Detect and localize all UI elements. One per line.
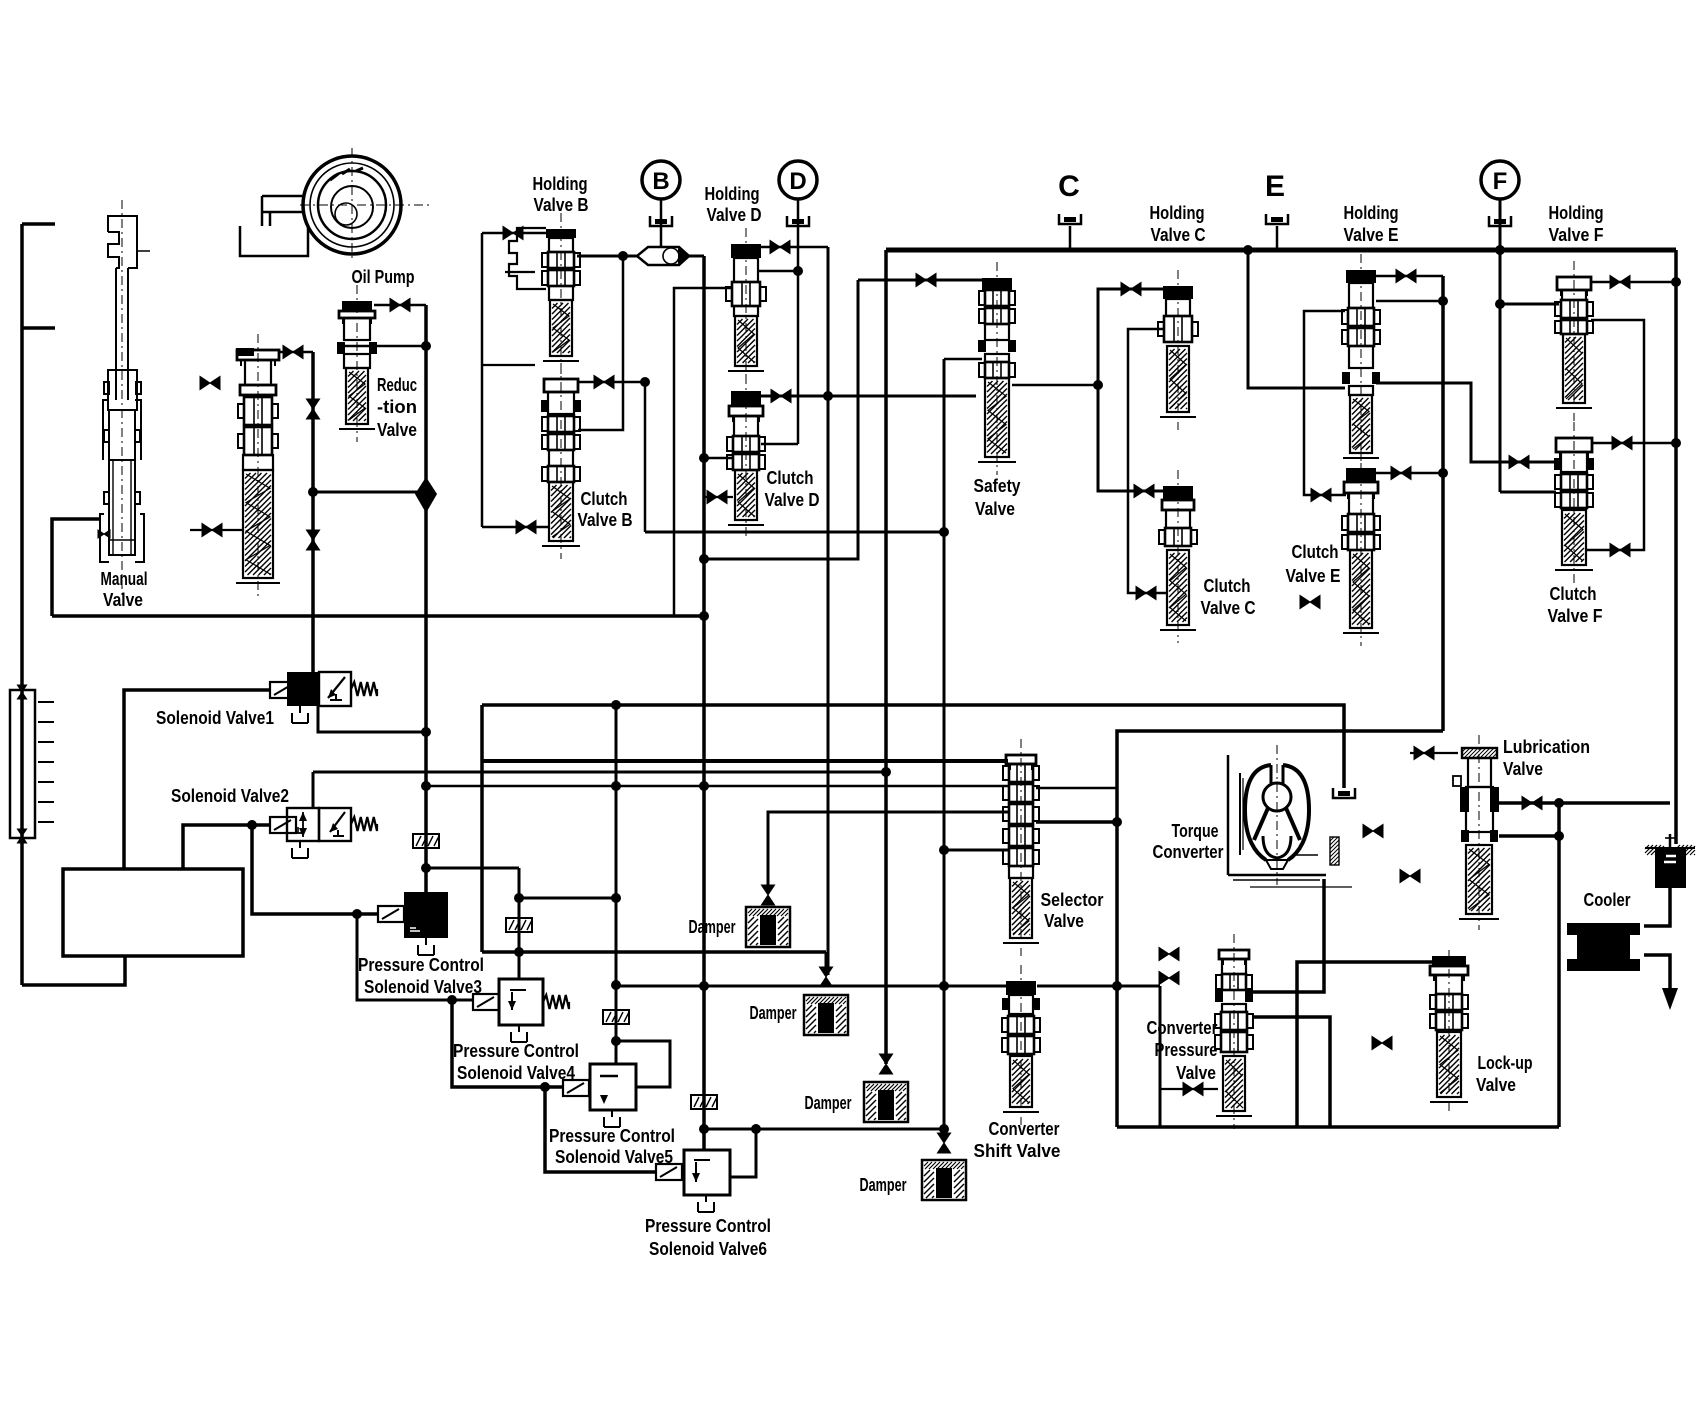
junction x886 y772: [881, 767, 891, 777]
svg-text:Solenoid Valve4: Solenoid Valve4: [457, 1062, 576, 1083]
junction x313 y492: [308, 487, 318, 497]
junction x828 y396: [823, 391, 833, 401]
svg-text:Valve E: Valve E: [1344, 224, 1399, 245]
wire selector right y822: [1036, 820, 1117, 824]
svg-text:Damper: Damper: [689, 916, 736, 937]
clutch valve B: [541, 363, 581, 559]
svg-text:-tion: -tion: [377, 396, 417, 417]
wire holding F cap X line: [1591, 281, 1676, 284]
damper 1: [746, 907, 790, 947]
converter pressure valve: [1215, 934, 1253, 1129]
wire vertical x313: [311, 352, 315, 672]
wire line y705 to TC cup: [482, 705, 1344, 788]
junction pill left: [618, 251, 628, 261]
label safety valve: [974, 475, 1022, 519]
junction x704 y559: [699, 554, 709, 564]
wire box bottom y1127: [1117, 1125, 1559, 1129]
junction x944 y532: [939, 527, 949, 537]
wire vertical x886: [884, 250, 888, 1064]
orifice X manual valve: [98, 530, 110, 538]
wire holding D side port: [759, 270, 798, 273]
orifice X damper1: [761, 885, 774, 905]
orifice X clutch F right: [1612, 436, 1632, 449]
wire x1500 to clutch F: [1500, 491, 1556, 494]
holding valve F: [1555, 261, 1593, 421]
label damper 2: [750, 1002, 797, 1023]
wire solenoid1 out: [318, 706, 426, 732]
junction x545 y1087: [540, 1082, 550, 1092]
wire D circle drop: [797, 198, 800, 444]
junction x426 y346: [421, 341, 431, 351]
wire holding E left loop: [1304, 311, 1346, 495]
junction x1559 y803: [1554, 798, 1564, 808]
orifice X holding E cap: [1396, 269, 1416, 282]
label selector valve: [1041, 889, 1104, 931]
junction x798 y271: [793, 266, 803, 276]
label holding valve E: [1344, 202, 1399, 245]
damper 4: [922, 1160, 966, 1200]
svg-text:Valve D: Valve D: [765, 489, 820, 510]
drain arrow: [1662, 988, 1678, 1010]
orifice X float clutchE: [1300, 595, 1320, 608]
wire holding E dots to clutch F: [1376, 383, 1556, 462]
junction x616 y705: [611, 700, 621, 710]
svg-text:Pressure Control: Pressure Control: [358, 954, 484, 975]
svg-text:Converter: Converter: [989, 1118, 1060, 1139]
control unit box: [63, 869, 243, 956]
wire holding B side loop: [482, 364, 535, 366]
solenoid valve 2: [270, 808, 377, 858]
oil strainer: [1645, 834, 1695, 888]
wire vertical x482 upper: [481, 233, 484, 527]
wire solenoid2 feed: [183, 825, 270, 869]
lock-up valve: [1430, 950, 1468, 1115]
cup C: [1059, 214, 1081, 250]
cup E: [1266, 214, 1288, 250]
label clutch valve F: [1548, 583, 1603, 626]
orifice X damper4: [937, 1133, 950, 1153]
wire PCS5 top branch: [616, 1041, 670, 1087]
svg-text:Valve: Valve: [377, 419, 417, 440]
junction PCS4 connector: [447, 995, 457, 1005]
torque converter: [1240, 745, 1339, 885]
wire main bus: [886, 248, 1676, 253]
wire holding E right port: [1376, 300, 1443, 303]
wire damper1 branch: [768, 812, 1008, 886]
port C letter: [1058, 170, 1080, 203]
wire PCS4 lower branch: [452, 1000, 563, 1087]
label converter pressure valve: [1147, 1017, 1218, 1083]
oil pump: [240, 148, 430, 262]
damper 2: [804, 995, 848, 1035]
cup D: [787, 216, 809, 226]
manual valve: [100, 200, 150, 595]
screen on x704: [691, 1095, 717, 1109]
wire F circle drop: [1499, 198, 1502, 492]
wire line y898: [519, 897, 616, 900]
orifice X float tc right: [1363, 824, 1383, 837]
junction x519 y952: [514, 947, 524, 957]
wire bottom long line y616: [52, 614, 704, 618]
port D circle: [779, 161, 817, 199]
reduction valve: [337, 285, 377, 442]
svg-text:Converter: Converter: [1147, 1017, 1218, 1038]
svg-text:Lubrication: Lubrication: [1503, 736, 1590, 757]
svg-text:Valve F: Valve F: [1549, 224, 1604, 245]
orifice X damper2: [819, 967, 832, 987]
clutch valve D: [727, 375, 765, 538]
wire line y786 to selector: [426, 785, 1008, 788]
converter shift valve: [1002, 965, 1040, 1125]
orifice X clutch C tube: [1136, 586, 1156, 599]
orifice X valve2 cap: [283, 345, 303, 358]
orifice X conv pressure: [1160, 1082, 1218, 1095]
wire vertical x944: [943, 359, 946, 1141]
svg-text:Pressure Control: Pressure Control: [645, 1215, 771, 1236]
svg-text:B: B: [652, 168, 669, 195]
orifice X clutch D cap: [771, 389, 791, 402]
junction x1443 y473: [1438, 468, 1448, 478]
wire right margin vertical: [1674, 250, 1678, 844]
svg-text:Valve: Valve: [1503, 758, 1543, 779]
wire selector right y788: [1036, 787, 1117, 790]
wire vertical x482 lower: [480, 705, 484, 952]
svg-text:Holding: Holding: [1150, 202, 1205, 223]
orifice X holding D cap: [770, 240, 790, 253]
wire selector port y850: [944, 849, 1008, 852]
cup torque converter: [1333, 788, 1355, 798]
label PCS5: [549, 1125, 675, 1167]
wire holding F right loop: [1586, 320, 1644, 550]
orifice X clutch E cap: [1391, 466, 1411, 479]
wire solenoid1 feed: [124, 690, 270, 869]
orifice X clutch B tube: [516, 520, 536, 533]
wire line y952: [482, 950, 826, 954]
svg-text:Clutch: Clutch: [1204, 575, 1251, 596]
wire safety mid port: [944, 358, 982, 361]
junction x426 y786: [421, 781, 431, 791]
wire holding C side loop: [1128, 329, 1166, 593]
svg-text:Selector: Selector: [1041, 889, 1104, 910]
screen on x616: [603, 1010, 629, 1024]
wire safety cap line: [858, 279, 982, 282]
svg-text:Oil Pump: Oil Pump: [352, 266, 415, 287]
check valve: [415, 477, 437, 513]
orifice X valve2 left: [202, 523, 222, 536]
svg-text:Torque: Torque: [1172, 820, 1219, 841]
orifice X float tc low: [1400, 869, 1420, 882]
orifice X lube left: [1414, 746, 1434, 759]
junction x426 y732: [421, 727, 431, 737]
junction bus x1500: [1495, 245, 1505, 255]
wire x798 to clutch D: [761, 443, 798, 446]
clutch valve E: [1342, 452, 1380, 646]
wire PCS6 right branch: [730, 1129, 756, 1177]
label damper 4: [860, 1174, 907, 1195]
label holding valve D: [705, 183, 762, 225]
port B circle: [642, 161, 680, 199]
wire vertical x828: [827, 247, 830, 975]
junction x704 y1129: [699, 1124, 709, 1134]
wire damper2 drop: [825, 952, 828, 975]
wire TC drain double: [1228, 875, 1352, 887]
svg-text:Damper: Damper: [805, 1092, 852, 1113]
wire clutch B tube port: [482, 526, 549, 529]
svg-text:Cooler: Cooler: [1584, 889, 1631, 910]
label damper 1: [689, 916, 736, 937]
screen on x519: [506, 918, 532, 932]
svg-text:Clutch: Clutch: [581, 488, 628, 509]
junction x616 y786: [611, 781, 621, 791]
wire vertical x1160: [1159, 986, 1162, 1127]
svg-text:Holding: Holding: [1549, 202, 1604, 223]
svg-text:Valve E: Valve E: [1286, 565, 1341, 586]
svg-text:Holding: Holding: [533, 173, 588, 194]
wire manual valve drain: [52, 519, 100, 616]
wire reduction side port: [344, 345, 426, 348]
label clutch valve D: [765, 467, 820, 510]
screen on x426: [413, 834, 439, 848]
svg-text:Solenoid Valve2: Solenoid Valve2: [171, 785, 289, 806]
wire clutch D mid port: [704, 457, 733, 460]
label PCS3: [358, 954, 484, 997]
junction x1676 y443: [1671, 438, 1681, 448]
svg-text:Valve: Valve: [1044, 910, 1084, 931]
svg-text:Lock-up: Lock-up: [1478, 1052, 1533, 1073]
svg-text:Safety: Safety: [974, 475, 1022, 496]
orifice X on x313 lower: [306, 530, 319, 550]
svg-text:Converter: Converter: [1153, 841, 1224, 862]
label holding valve F: [1549, 202, 1604, 245]
svg-text:Damper: Damper: [860, 1174, 907, 1195]
orifice X on x313 upper: [306, 399, 319, 419]
svg-text:Clutch: Clutch: [767, 467, 814, 488]
svg-text:Shift Valve: Shift Valve: [974, 1140, 1061, 1161]
junction solenoid2 feed: [247, 820, 257, 830]
wire vertical x1443: [1441, 276, 1445, 731]
wire x623 loop: [578, 256, 623, 430]
junction x616 y898: [611, 893, 621, 903]
svg-text:Holding: Holding: [1344, 202, 1399, 223]
orifice X clutch C cap: [1134, 484, 1154, 497]
orifice X float conv1: [1159, 947, 1179, 960]
svg-text:Valve: Valve: [1476, 1074, 1516, 1095]
wire vertical x616: [615, 705, 618, 1064]
junction x1443 y301: [1438, 296, 1448, 306]
junction x756 y1129: [751, 1124, 761, 1134]
svg-text:F: F: [1493, 168, 1508, 195]
orifice X holding C cap: [1121, 282, 1141, 295]
svg-text:Pressure: Pressure: [1155, 1039, 1218, 1060]
wire filter to cooler: [1644, 888, 1670, 926]
wire holding B bracket stub: [505, 271, 535, 273]
wire shift valve cap right: [1037, 985, 1160, 988]
junction x645: [640, 377, 650, 387]
orifice X accumulator bot: [17, 829, 26, 843]
svg-text:Holding: Holding: [705, 183, 760, 204]
junction x704 y458: [699, 453, 709, 463]
svg-text:Solenoid Valve3: Solenoid Valve3: [364, 976, 482, 997]
cup B: [650, 216, 672, 226]
wire x313 to check valve: [313, 491, 418, 494]
wire left margin top stub: [22, 222, 55, 226]
solenoid valve 1: [270, 672, 377, 723]
wire holding C cap loop: [1098, 289, 1166, 491]
junction x426 y868: [421, 863, 431, 873]
clutch valve C: [1159, 470, 1197, 643]
pressure control solenoid valve 5: [563, 1064, 636, 1127]
svg-text:Reduc: Reduc: [377, 374, 417, 395]
label cooler: [1584, 889, 1631, 910]
junction x944 y986: [939, 981, 949, 991]
wire lockup feed: [1297, 962, 1433, 1127]
cup F: [1489, 216, 1511, 226]
label lock-up valve: [1476, 1052, 1533, 1095]
label converter shift valve: [974, 1118, 1061, 1161]
wire PCS5 to PCS6 link: [545, 1087, 656, 1172]
svg-text:Valve C: Valve C: [1151, 224, 1206, 245]
wire holding B cap left: [482, 232, 546, 235]
wire pill out to x704: [689, 255, 704, 258]
orifice X safety cap: [916, 273, 936, 286]
orifice X clutch D tube: [707, 490, 727, 503]
wire line y760 to selector: [482, 759, 1008, 763]
wire vertical x1559: [1557, 803, 1561, 1127]
wire cooler out: [1644, 955, 1670, 990]
label holding valve B: [533, 173, 589, 215]
wire TC bracket: [1227, 755, 1230, 875]
orifice X float left: [200, 376, 220, 389]
svg-text:Solenoid Valve6: Solenoid Valve6: [649, 1238, 767, 1259]
wire clutch F cap X line: [1591, 442, 1676, 445]
svg-text:Valve: Valve: [975, 498, 1015, 519]
label holding valve C: [1150, 202, 1206, 245]
wire line y868: [426, 867, 519, 870]
orifice X reduction cap: [390, 298, 410, 311]
label clutch valve B: [578, 488, 633, 530]
wire solenoid2 top feed: [312, 772, 315, 808]
wire box top y731: [1117, 731, 1443, 1127]
orifice X damper3: [879, 1054, 892, 1074]
junction PCS3 feed: [352, 909, 362, 919]
holding valve D: [726, 228, 766, 384]
svg-text:Valve B: Valve B: [534, 194, 589, 215]
wire clutch B cap X line: [577, 381, 645, 384]
label PCS6: [645, 1215, 771, 1259]
wire long vertical x704: [702, 256, 706, 1150]
junction x1676 y282: [1671, 277, 1681, 287]
svg-text:Valve: Valve: [1176, 1062, 1216, 1083]
svg-text:Valve D: Valve D: [707, 204, 762, 225]
orifice X lube out: [1522, 796, 1542, 809]
junction x1500 y304: [1495, 299, 1505, 309]
holding valve B: [509, 213, 580, 374]
selector valve: [1003, 739, 1039, 956]
bypass pill valve: [637, 247, 690, 265]
junction x944 y850: [939, 845, 949, 855]
label solenoid valve 2: [171, 785, 289, 806]
wire clutch D tube port: [704, 496, 733, 498]
wire lube X stub: [1410, 752, 1458, 754]
wire long line y532: [645, 531, 944, 534]
holding valve C: [1158, 270, 1198, 430]
junction x704 y616: [699, 611, 709, 621]
orifice X holding B cap: [503, 226, 523, 239]
wire solenoid2 to PCS3: [252, 825, 378, 914]
svg-text:Clutch: Clutch: [1292, 541, 1339, 562]
junction x944 y1129: [939, 1124, 949, 1134]
label PCS4: [453, 1040, 579, 1083]
wire holding D cap X line: [761, 246, 828, 249]
junction x616 y1041: [611, 1036, 621, 1046]
wire vertical x519: [518, 868, 521, 979]
wire PCS4 conn stub: [357, 914, 473, 1000]
junction x616 y985: [611, 980, 621, 990]
wire safety right port: [1012, 384, 1098, 387]
label reduction valve: [377, 374, 417, 440]
cooler: [1567, 923, 1640, 971]
wire reduction cap to x426: [374, 304, 426, 307]
wire clutch E cap X line: [1375, 472, 1443, 475]
svg-text:Damper: Damper: [750, 1002, 797, 1023]
junction x704 y986: [699, 981, 709, 991]
svg-text:Solenoid Valve1: Solenoid Valve1: [156, 707, 274, 728]
label clutch valve E: [1286, 541, 1341, 586]
pressure control solenoid valve 4: [473, 979, 569, 1042]
wire reduction valve top: [278, 351, 313, 354]
port F circle: [1481, 161, 1519, 199]
svg-text:Valve B: Valve B: [578, 509, 633, 530]
wire line y1129: [704, 1128, 944, 1131]
lubrication valve: [1453, 735, 1499, 930]
junction x1117 y986: [1112, 981, 1122, 991]
orifice X holding F cap: [1610, 275, 1630, 288]
wire line y772: [313, 771, 886, 774]
svg-text:D: D: [789, 168, 806, 195]
orifice X float conv2: [1159, 971, 1179, 984]
junction bus x1248: [1243, 245, 1253, 255]
junction x704 y786: [699, 781, 709, 791]
junction x1098 y385: [1093, 380, 1103, 390]
label damper 3: [805, 1092, 852, 1113]
wire lube valve right: [1499, 801, 1670, 805]
wire conv pressure lower out: [1252, 1017, 1330, 1127]
pressure control solenoid valve 3: [378, 892, 448, 955]
svg-text:Valve C: Valve C: [1201, 597, 1256, 618]
svg-text:Valve F: Valve F: [1548, 605, 1603, 626]
wire B drop: [660, 199, 663, 248]
orifice X clutch E left: [1311, 488, 1331, 501]
damper 3: [864, 1082, 908, 1122]
wire vertical x858: [704, 280, 858, 559]
wire valve2 left stub: [190, 529, 243, 531]
label oil pump: [352, 266, 415, 287]
safety valve: [978, 262, 1016, 475]
svg-text:C: C: [1058, 170, 1080, 203]
svg-text:E: E: [1265, 170, 1285, 203]
wire lube second port: [1499, 834, 1559, 838]
clutch valve F: [1554, 422, 1594, 583]
svg-text:Valve: Valve: [103, 589, 143, 610]
junction x1117 y822: [1112, 817, 1122, 827]
label lubrication valve: [1503, 736, 1590, 779]
label solenoid valve 1: [156, 707, 274, 728]
svg-text:Clutch: Clutch: [1550, 583, 1597, 604]
junction x1559 y836: [1554, 831, 1564, 841]
wire line y985 shift valve: [616, 985, 1006, 988]
orifice X clutch B cap: [594, 375, 614, 388]
wire vertical x674: [674, 288, 733, 616]
